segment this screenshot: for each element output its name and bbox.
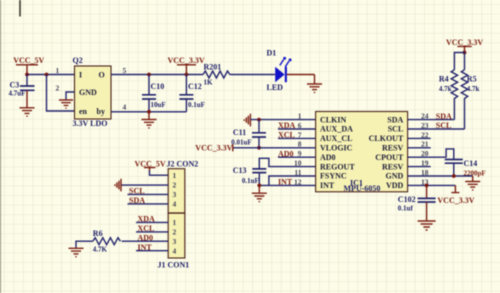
svg-text:R4: R4 xyxy=(439,75,449,84)
svg-text:J2 CON2: J2 CON2 xyxy=(167,159,199,168)
svg-text:4: 4 xyxy=(123,103,127,112)
net label SDA + wire to J2 pin 4 xyxy=(128,196,169,205)
svg-text:FSYNC: FSYNC xyxy=(320,172,347,181)
svg-text:24: 24 xyxy=(421,112,429,121)
svg-text:1: 1 xyxy=(173,171,177,180)
svg-text:CLKIN: CLKIN xyxy=(320,115,346,124)
wire: R201 to LED anode xyxy=(230,74,275,76)
svg-text:CPOUT: CPOUT xyxy=(375,153,404,162)
net label AD0 + wire to J1 pin 3 xyxy=(122,233,169,242)
svg-text:GND: GND xyxy=(386,172,404,181)
net label XDA + wire to J1 pin 1 xyxy=(136,215,168,224)
svg-text:0.1uF: 0.1uF xyxy=(242,177,259,185)
wire: IC pin 24 (SDA) to R4 xyxy=(408,119,455,121)
svg-text:SCL: SCL xyxy=(436,121,452,130)
svg-text:C13: C13 xyxy=(233,166,247,175)
svg-text:2: 2 xyxy=(56,84,60,93)
power port VCC_5V (at J2) xyxy=(135,159,166,171)
svg-text:8: 8 xyxy=(298,140,302,149)
svg-text:GND: GND xyxy=(79,88,97,97)
pin number 19 + stub xyxy=(408,159,431,168)
ground at GND row xyxy=(465,176,480,190)
svg-text:VCC_3.3V: VCC_3.3V xyxy=(446,38,483,47)
svg-text:0.1uF: 0.1uF xyxy=(188,101,205,109)
svg-text:1: 1 xyxy=(298,112,302,121)
net label AD0 + wire to IC pin 9 xyxy=(278,149,316,158)
pin number 13 + wire (VDD row) xyxy=(408,177,456,186)
junction at C3 tap xyxy=(25,73,29,77)
svg-text:AD0: AD0 xyxy=(320,153,336,162)
junction at C10 bottom xyxy=(147,110,151,114)
wire: R6 left to ground xyxy=(76,241,93,248)
svg-text:I: I xyxy=(79,70,82,79)
svg-text:9: 9 xyxy=(298,149,302,158)
capacitor C3 xyxy=(9,75,35,108)
rotated ground at IC pin 1 (CLKIN) xyxy=(244,114,250,127)
svg-text:3: 3 xyxy=(173,237,177,246)
svg-text:VCC_5V: VCC_5V xyxy=(13,56,44,65)
svg-text:4.7k: 4.7k xyxy=(439,85,452,93)
svg-text:SDA: SDA xyxy=(436,112,452,121)
svg-text:C14: C14 xyxy=(464,159,478,168)
svg-text:en: en xyxy=(79,107,88,116)
capacitor C12 xyxy=(179,75,205,112)
power port VCC_3.3V (top middle) xyxy=(168,56,205,74)
svg-text:INT: INT xyxy=(278,178,293,187)
svg-text:4.7k: 4.7k xyxy=(467,85,480,93)
sheet border tick top xyxy=(19,0,21,17)
wire: C13 top jog to IC pin 10 (REGOUT) xyxy=(259,158,315,169)
svg-text:3.3V LDO: 3.3V LDO xyxy=(73,119,108,128)
wire: LED cathode to ground xyxy=(287,74,315,76)
junction at C102 tap xyxy=(425,184,429,188)
svg-text:C10: C10 xyxy=(151,82,165,91)
resistor R4 xyxy=(439,70,458,120)
pin number 22 + stub xyxy=(408,130,431,139)
ground at R6 xyxy=(69,248,84,256)
svg-text:REGOUT: REGOUT xyxy=(320,162,355,171)
power port VCC_3.3V (bottom right) xyxy=(437,185,474,205)
svg-text:23: 23 xyxy=(421,121,429,130)
wire: junction down to Q2 en pin xyxy=(47,75,75,112)
svg-text:C12: C12 xyxy=(188,82,202,91)
wire: FSYNC jog down xyxy=(269,176,316,185)
svg-text:7: 7 xyxy=(298,130,302,139)
svg-text:RESV: RESV xyxy=(382,144,404,153)
svg-text:0.1uf: 0.1uf xyxy=(398,204,414,212)
ground at Q2 pin 2 xyxy=(59,100,73,108)
svg-text:3: 3 xyxy=(173,190,177,199)
svg-text:1K: 1K xyxy=(204,79,214,87)
resistor R5 xyxy=(461,70,479,129)
net label XCL + wire to IC pin 7 xyxy=(278,131,316,140)
wire: Q2 output to R201 xyxy=(111,74,203,76)
svg-text:R5: R5 xyxy=(467,75,477,84)
svg-text:SDA: SDA xyxy=(387,115,403,124)
ground under C13 xyxy=(252,185,267,201)
connector J2 CON2 xyxy=(167,159,199,213)
capacitor C11 xyxy=(231,120,266,148)
capacitor C10 xyxy=(142,75,166,112)
svg-text:CLKOUT: CLKOUT xyxy=(369,134,404,143)
svg-text:12: 12 xyxy=(294,177,302,186)
pin number 20 + wire to C14 xyxy=(408,149,454,159)
junction at pull-up feed xyxy=(463,51,467,55)
svg-text:0.01uF: 0.01uF xyxy=(231,138,251,146)
svg-text:VLOGIC: VLOGIC xyxy=(320,144,353,153)
svg-text:2: 2 xyxy=(173,181,177,190)
svg-text:C11: C11 xyxy=(233,128,246,137)
pin number 18 + wire (GND row) xyxy=(408,168,473,177)
ground after LED xyxy=(307,75,322,93)
wire: VCC_3.3V to IC pin 8 xyxy=(234,147,316,149)
svg-text:1: 1 xyxy=(173,218,177,227)
junction at C13 bottom xyxy=(257,184,261,188)
svg-text:4.7uF: 4.7uF xyxy=(9,90,26,98)
pin number 23 + net label SCL xyxy=(421,121,451,130)
pin number 24 + net label SDA xyxy=(421,112,452,121)
wire: IC pin 23 (SCL) to R5 xyxy=(408,128,465,130)
svg-text:by: by xyxy=(97,107,105,116)
svg-text:11: 11 xyxy=(294,168,301,177)
pin number 21 + stub xyxy=(408,140,431,149)
junction at en-branch tap xyxy=(45,73,49,77)
capacitor C102 xyxy=(398,185,436,220)
junction at C11 top xyxy=(257,118,261,122)
svg-text:R6: R6 xyxy=(93,229,103,238)
svg-text:4: 4 xyxy=(173,246,177,255)
junction at C12 xyxy=(185,73,189,77)
svg-text:INT: INT xyxy=(320,181,335,190)
ground under C10/C12 xyxy=(142,112,157,128)
wire: VCC_5V to J2 pin 1 xyxy=(150,171,169,176)
power port VCC_3.3V (top right) xyxy=(446,38,483,53)
capacitor C14 xyxy=(445,159,486,177)
LED D1 xyxy=(267,48,292,92)
wire: feed to R5 top xyxy=(464,53,466,70)
IC U1 MPU-6050 xyxy=(316,112,408,194)
svg-text:D1: D1 xyxy=(267,48,277,57)
svg-text:MPU-6050: MPU-6050 xyxy=(344,184,381,193)
wire: INT row to IC pin 12 xyxy=(259,184,315,186)
junction at C14 bottom xyxy=(452,174,456,178)
svg-text:1: 1 xyxy=(56,66,60,75)
wire: VCC_5V rail to Q2 pin 1 xyxy=(27,74,75,76)
svg-text:LED: LED xyxy=(267,83,284,92)
rotated ground at J2 pin 2 xyxy=(115,179,121,192)
wire: Q2 pin 4 to C10/C12 bottoms xyxy=(111,111,186,113)
svg-text:6: 6 xyxy=(298,121,302,130)
svg-text:R201: R201 xyxy=(204,63,222,72)
svg-text:O: O xyxy=(99,70,105,79)
svg-text:Q2: Q2 xyxy=(73,56,83,65)
regulator Q2 (3.3V LDO) xyxy=(73,56,112,128)
svg-text:AUX_CL: AUX_CL xyxy=(320,134,352,143)
net label SCL + wire to J2 pin 3 xyxy=(128,187,169,196)
svg-text:C102: C102 xyxy=(398,195,416,204)
svg-text:J1 CON1: J1 CON1 xyxy=(158,260,190,269)
net label INT + wire to J1 pin 4 xyxy=(136,243,168,252)
svg-text:10: 10 xyxy=(294,159,302,168)
wire: feed to R4 top xyxy=(454,53,464,70)
svg-text:AUX_DA: AUX_DA xyxy=(320,125,353,134)
wire: ground to IC pin 1 xyxy=(250,119,315,121)
junction at C10 xyxy=(147,73,151,77)
wire: J2 pin 2 to ground xyxy=(121,184,168,186)
power port VCC_5V (top left) xyxy=(13,56,44,74)
svg-text:4: 4 xyxy=(173,200,177,209)
power port VCC_3.3V (middle, at VLOGIC) xyxy=(195,144,233,153)
capacitor C13 xyxy=(233,166,267,186)
svg-text:4.7K: 4.7K xyxy=(93,245,108,253)
ground under C102 xyxy=(418,221,436,230)
ground under C3 xyxy=(20,108,35,116)
svg-text:2: 2 xyxy=(173,228,177,237)
svg-text:VCC_3.3V: VCC_3.3V xyxy=(168,56,205,65)
resistor R6 xyxy=(93,229,121,253)
svg-text:VCC_3.3V: VCC_3.3V xyxy=(437,196,474,205)
svg-text:SCL: SCL xyxy=(388,125,404,134)
resistor R201 xyxy=(203,63,230,87)
junction at C11 bottom xyxy=(257,146,261,150)
svg-text:VCC_3.3V: VCC_3.3V xyxy=(195,144,232,153)
svg-text:VDD: VDD xyxy=(386,181,404,190)
net label XCL + wire to J1 pin 2 xyxy=(136,224,168,233)
connector J1 CON1 xyxy=(158,213,190,269)
svg-text:C3: C3 xyxy=(10,81,20,90)
sheet border left edge xyxy=(0,0,2,293)
svg-text:10uF: 10uF xyxy=(151,101,166,109)
net label XDA + wire to IC pin 6 xyxy=(278,121,316,130)
wire: Q2 pin 2 to ground xyxy=(66,92,75,100)
svg-text:RESV: RESV xyxy=(382,162,404,171)
